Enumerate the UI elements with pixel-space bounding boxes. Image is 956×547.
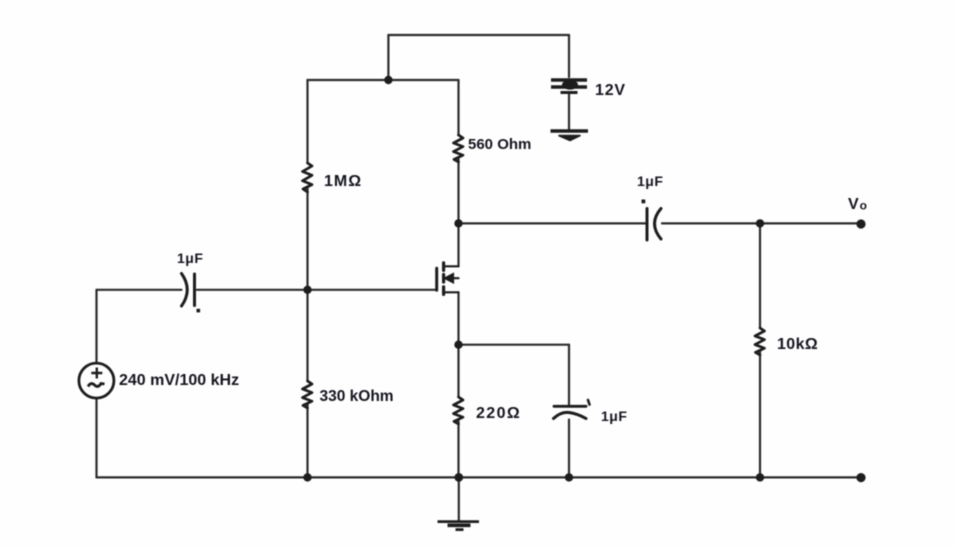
svg-text:1μF: 1μF (637, 173, 663, 189)
wire ground stem (458, 477, 460, 521)
resistor R5 10kOhm (755, 328, 765, 355)
svg-text:330 kOhm: 330 kOhm (320, 388, 394, 405)
wire source top lead (95, 290, 97, 363)
wire 330k bottom (306, 404, 308, 477)
svg-text:10kΩ: 10kΩ (777, 336, 818, 353)
wire 10k bottom (759, 350, 761, 477)
source V2 AC 240mV (79, 363, 114, 398)
junction rail-bypass (565, 473, 573, 481)
svg-text:1μF: 1μF (177, 250, 203, 266)
svg-text:12V: 12V (595, 82, 626, 99)
junction node drain (454, 219, 462, 227)
junction rail-330k (303, 473, 311, 481)
capacitor C2 output 1uF (642, 200, 662, 241)
resistor R4 220 Ohm (454, 397, 464, 424)
junction node output-10k (756, 219, 764, 227)
junction node vcc (384, 76, 392, 84)
resistor R2 330 kOhm (303, 381, 313, 408)
wire drain (457, 159, 459, 266)
junction rail-10k (756, 473, 764, 481)
resistor R1 1MOhm (303, 163, 313, 192)
svg-text:Vo: Vo (848, 196, 867, 213)
wire drain to output cap (459, 222, 646, 224)
capacitor C1 input 1uF (182, 274, 201, 313)
svg-text:220Ω: 220Ω (476, 405, 521, 422)
wire vcc drop left (387, 35, 389, 80)
wire bottom rail (97, 476, 858, 478)
wire top rail (388, 34, 569, 36)
wire bypass cap top (568, 345, 570, 405)
wire vcc horizontal (308, 79, 459, 81)
svg-text:240 mV/100 kHz: 240 mV/100 kHz (119, 372, 239, 389)
terminal bottom-right endpoint (856, 473, 865, 482)
wire bypass cap bottom (568, 420, 570, 478)
ground battery (551, 131, 589, 141)
ground main (438, 522, 480, 530)
wire 560 top (457, 80, 459, 135)
wire input cap to gate node (197, 289, 308, 291)
capacitor C3 bypass 1uF (554, 400, 590, 419)
junction rail-220 (454, 473, 463, 482)
wire 1M bottom to gate node (306, 188, 308, 290)
terminal Vo endpoint (856, 219, 865, 228)
svg-text:560 Ohm: 560 Ohm (468, 136, 531, 153)
resistor R3 560 Ohm (454, 135, 464, 162)
wire source bottom lead (95, 399, 97, 478)
wire output cap to Vo (662, 222, 857, 224)
wire 220 bottom (457, 421, 459, 477)
svg-text:1μF: 1μF (601, 408, 627, 424)
wire battery to ground (568, 95, 570, 130)
wire gate (308, 289, 437, 291)
wire source to bypass (459, 344, 570, 346)
wire 10k top (759, 223, 761, 328)
battery V1 12V (551, 80, 587, 93)
wire 1M top (306, 80, 308, 163)
transistor Q1 MOSFET (437, 263, 459, 295)
wire battery lead top (568, 35, 570, 77)
junction node source (454, 341, 462, 349)
wire mosfet source down (457, 292, 459, 397)
svg-text:1MΩ: 1MΩ (324, 173, 362, 190)
wire input left (97, 289, 182, 291)
wire 330k top (306, 290, 308, 381)
junction node gate (303, 286, 311, 294)
